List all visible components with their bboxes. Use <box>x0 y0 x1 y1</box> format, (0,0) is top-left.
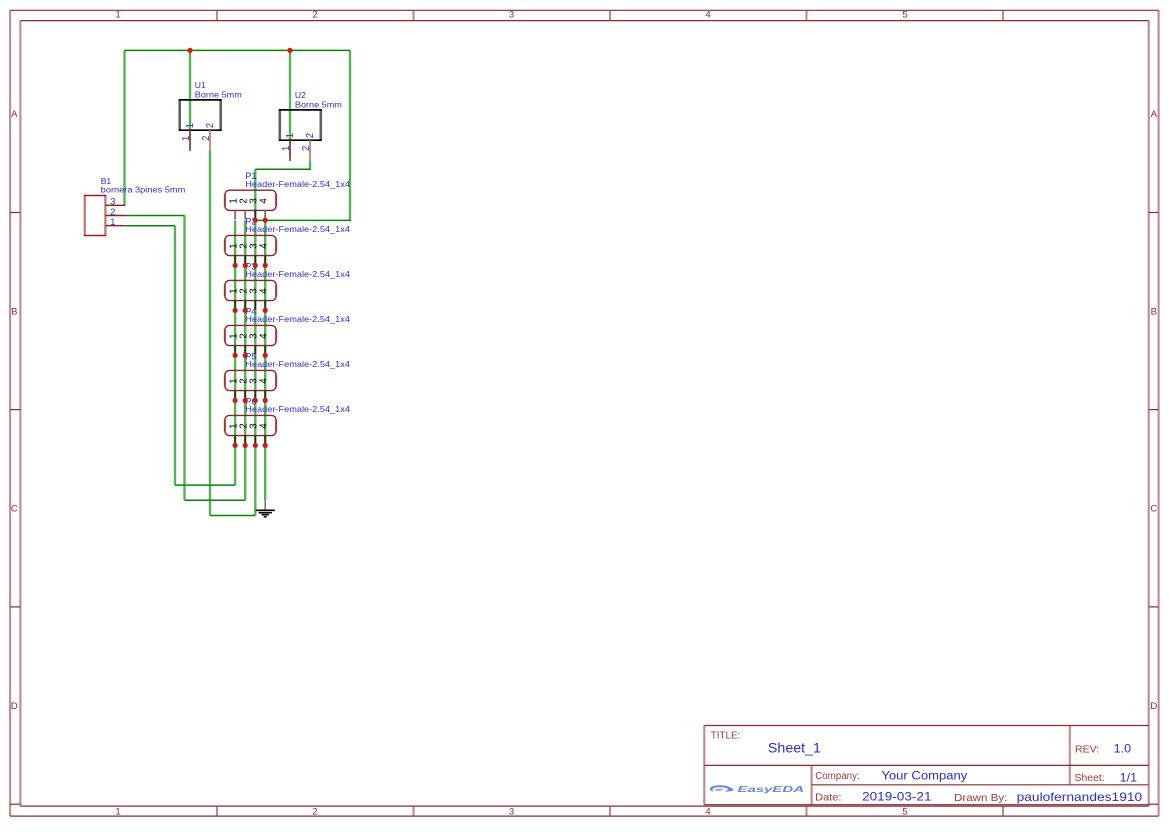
svg-text:Company:: Company: <box>815 770 860 782</box>
svg-text:Borne 5mm: Borne 5mm <box>295 99 342 109</box>
svg-text:Header-Female-2.54_1x4: Header-Female-2.54_1x4 <box>245 269 350 279</box>
junction dot below P4 pin 2 <box>243 353 248 358</box>
junction dot below P4 pin 4 <box>263 353 268 358</box>
connector P2 Header-Female-2.54_1x4 <box>225 216 350 264</box>
wire B1 pin 1 horizontal <box>125 225 175 227</box>
wire left vertical to B1 pin 3 <box>123 50 125 205</box>
svg-text:D: D <box>11 701 18 712</box>
svg-text:Header-Female-2.54_1x4: Header-Female-2.54_1x4 <box>245 404 350 414</box>
wire bottom horizontal to column 1 <box>175 484 235 486</box>
svg-text:EasyEDA: EasyEDA <box>738 784 805 794</box>
junction dot below P5 pin 4 <box>263 398 268 403</box>
svg-text:2: 2 <box>205 123 216 128</box>
junction dot below P1 pin 4 <box>263 218 268 223</box>
svg-text:4: 4 <box>259 288 270 294</box>
terminal block U2 Borne 5mm <box>279 90 342 161</box>
svg-text:Borne 5mm: Borne 5mm <box>195 89 242 99</box>
frame column numbers top <box>115 10 907 21</box>
svg-text:1: 1 <box>281 146 292 151</box>
svg-text:Header-Female-2.54_1x4: Header-Female-2.54_1x4 <box>245 179 350 189</box>
junction dot below P6 pin 1 <box>233 443 238 448</box>
junction dot below P3 pin 1 <box>233 308 238 313</box>
svg-text:B: B <box>1151 307 1157 318</box>
wire B1 pin 2 vertical <box>183 216 185 501</box>
wire B1 pin 1 vertical <box>174 226 176 485</box>
svg-text:2: 2 <box>312 807 317 818</box>
svg-text:2: 2 <box>201 136 212 141</box>
svg-text:Date:: Date: <box>815 791 841 803</box>
svg-text:B: B <box>11 307 17 318</box>
svg-text:Sheet_1: Sheet_1 <box>768 739 821 755</box>
junction dot below P5 pin 2 <box>243 398 248 403</box>
svg-text:A: A <box>11 109 18 120</box>
svg-text:REV:: REV: <box>1075 743 1099 755</box>
junction dot below P2 pin 4 <box>263 263 268 268</box>
wire U1 pin 2 vertical <box>209 150 211 515</box>
title block frame <box>704 726 1148 805</box>
svg-text:C: C <box>11 504 18 515</box>
wire column 2 vertical <box>244 220 246 500</box>
svg-text:Drawn By:: Drawn By: <box>954 792 1007 804</box>
svg-text:3: 3 <box>509 10 514 21</box>
wire U2 pin 2 down <box>309 160 311 169</box>
svg-text:Header-Female-2.54_1x4: Header-Female-2.54_1x4 <box>245 314 350 324</box>
wire top horizontal net <box>125 49 351 51</box>
connector P1 Header-Female-2.54_1x4 <box>225 171 350 219</box>
junction dot below P3 pin 2 <box>243 308 248 313</box>
svg-text:1: 1 <box>115 807 120 818</box>
connector P5 Header-Female-2.54_1x4 <box>225 351 350 399</box>
junction dot below P4 pin 1 <box>233 353 238 358</box>
wire U2 pin 2 horizontal to column 3 <box>255 168 311 170</box>
wire column 3 vertical <box>254 169 256 515</box>
ground symbol <box>256 500 275 517</box>
junction dot below P3 pin 4 <box>263 308 268 313</box>
svg-text:1: 1 <box>185 123 196 128</box>
svg-text:4: 4 <box>259 333 270 339</box>
junction dot below P2 pin 1 <box>233 263 238 268</box>
svg-text:Header-Female-2.54_1x4: Header-Female-2.54_1x4 <box>245 359 350 369</box>
junction dot top net at U2 <box>287 48 292 53</box>
wire right vertical from top net <box>349 50 351 220</box>
svg-text:4: 4 <box>259 198 270 204</box>
connector P3 Header-Female-2.54_1x4 <box>225 261 350 309</box>
svg-text:2: 2 <box>301 146 312 151</box>
svg-text:Header-Female-2.54_1x4: Header-Female-2.54_1x4 <box>245 224 350 234</box>
svg-text:4: 4 <box>259 378 270 384</box>
terminal block B1 bornera 3pines 5mm <box>84 176 185 236</box>
junction dot below P6 pin 3 <box>253 443 258 448</box>
junction dot below P2 pin 2 <box>243 263 248 268</box>
svg-text:4: 4 <box>705 807 710 818</box>
junction dot below P2 pin 3 <box>253 263 258 268</box>
terminal block U1 Borne 5mm <box>179 80 242 151</box>
svg-text:TITLE:: TITLE: <box>711 731 741 742</box>
svg-text:bornera 3pines 5mm: bornera 3pines 5mm <box>101 184 186 194</box>
svg-text:5: 5 <box>902 10 907 21</box>
svg-text:Sheet:: Sheet: <box>1075 772 1105 784</box>
svg-text:3: 3 <box>509 807 514 818</box>
svg-text:5: 5 <box>902 807 907 818</box>
wire column 4 vertical to ground <box>264 220 266 500</box>
svg-text:C: C <box>1150 504 1157 515</box>
junction dot below P6 pin 2 <box>243 443 248 448</box>
EasyEDA logo <box>710 784 804 794</box>
frame column numbers bottom <box>115 807 907 818</box>
wire bottom horizontal to column 3 <box>210 515 255 517</box>
svg-text:paulofernandes1910: paulofernandes1910 <box>1017 790 1143 804</box>
connector P6 Header-Female-2.54_1x4 <box>225 396 350 444</box>
svg-text:4: 4 <box>259 243 270 249</box>
junction dot below P5 pin 1 <box>233 398 238 403</box>
svg-text:4: 4 <box>705 10 710 21</box>
svg-text:2: 2 <box>312 10 317 21</box>
wire drop to U1 pin 1 <box>189 50 191 130</box>
wire drop to U2 pin 1 <box>289 50 291 140</box>
svg-text:2019-03-21: 2019-03-21 <box>862 791 931 803</box>
svg-text:2: 2 <box>305 133 316 138</box>
svg-text:4: 4 <box>259 423 270 429</box>
svg-text:1: 1 <box>285 133 296 138</box>
svg-text:1: 1 <box>115 10 120 21</box>
svg-text:1/1: 1/1 <box>1120 771 1138 785</box>
junction dot below P5 pin 3 <box>253 398 258 403</box>
svg-text:D: D <box>1150 701 1157 712</box>
connector P4 Header-Female-2.54_1x4 <box>225 306 350 354</box>
frame row letters left <box>11 109 18 712</box>
junction dot top net at U1 <box>187 48 192 53</box>
wire column 1 vertical <box>234 220 236 485</box>
wire horizontal into P2 pins 3,4 <box>255 219 351 221</box>
svg-text:Your Company: Your Company <box>881 770 967 782</box>
wire bottom horizontal to column 2 <box>185 499 246 501</box>
svg-text:1: 1 <box>181 136 192 141</box>
svg-text:1.0: 1.0 <box>1114 742 1132 756</box>
frame row letters right <box>1150 109 1157 712</box>
wire B1 pin 2 horizontal <box>125 215 184 217</box>
svg-text:A: A <box>1151 109 1158 120</box>
junction dot below P6 pin 4 <box>263 443 268 448</box>
svg-text:1: 1 <box>110 217 115 228</box>
junction dot below P1 pin 3 <box>253 218 258 223</box>
